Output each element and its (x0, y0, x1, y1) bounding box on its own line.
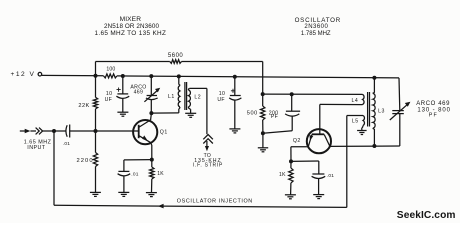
resistor 1K mixer (150, 160, 165, 193)
capacitor .01 input (54, 125, 96, 147)
svg-text:L1: L1 (168, 94, 175, 100)
wire Q1 emitter (150, 142, 151, 159)
text oscillator injection (177, 199, 253, 205)
capacitor 200PF (263, 94, 300, 133)
ground under 1K osc (285, 195, 296, 199)
svg-text:PF: PF (271, 114, 278, 120)
text mixer title (120, 16, 142, 23)
svg-text:OSCILLATOR INJECTION: OSCILLATOR INJECTION (177, 199, 253, 205)
ground under L5 (357, 131, 367, 135)
wire oscillator injection (54, 205, 347, 207)
svg-text:Q2: Q2 (293, 138, 301, 144)
svg-text:I.F. STRIP: I.F. STRIP (193, 163, 223, 169)
capacitor 10UF osc (217, 77, 241, 129)
node input junction (52, 129, 56, 133)
capacitor .01 osc (291, 161, 334, 194)
svg-text:2N518 OR 2N3600: 2N518 OR 2N3600 (104, 23, 159, 30)
ground under 10UF osc (229, 129, 240, 133)
svg-text:.01: .01 (327, 173, 334, 179)
ground under 10UF mixer (117, 112, 128, 116)
svg-text:PF: PF (429, 113, 438, 119)
node L3 bottom (372, 144, 376, 148)
svg-text:500: 500 (247, 111, 258, 117)
text oscillator title (295, 17, 341, 24)
core T1 (185, 82, 187, 110)
wire osc feed (263, 93, 363, 95)
node Q1 collector (149, 111, 153, 115)
node rail-L3 (372, 76, 376, 80)
inductor L1 (168, 76, 180, 113)
core T2 (368, 92, 370, 127)
wire L5 to injection (346, 116, 348, 208)
node Q1 base junction (94, 129, 98, 133)
svg-text:22K: 22K (78, 103, 89, 109)
ground under 500 (258, 148, 268, 152)
node feed-200PF junction (290, 92, 294, 96)
svg-text:2200: 2200 (77, 158, 94, 164)
ground under .01 osc (313, 195, 324, 199)
ground under .01 mixer (118, 192, 129, 196)
node rail-L1 (177, 74, 181, 78)
svg-text:ARCO 469: ARCO 469 (416, 101, 450, 107)
capacitor 10UF mixer (105, 76, 130, 112)
svg-text:1.785 MHZ: 1.785 MHZ (301, 31, 331, 37)
wire Q1 base (96, 130, 139, 132)
svg-text:1K: 1K (157, 171, 164, 177)
svg-text:+12 V: +12 V (11, 71, 36, 78)
resistor 100 (104, 66, 118, 78)
svg-text:L3: L3 (378, 108, 385, 114)
wire L4 bottom to Q2 base (320, 103, 363, 105)
text mixer freq (95, 30, 167, 37)
text oscillator device (304, 24, 328, 30)
wire 5600 top right (182, 61, 263, 63)
capacitor ARCO 469 osc (390, 78, 451, 120)
capacitor ARCO 469 mixer (130, 76, 160, 113)
svg-text:L2: L2 (194, 94, 201, 100)
resistor 22K (78, 76, 97, 131)
watermark SeekIC.com (397, 210, 456, 221)
wire Q2 emitter (291, 147, 308, 162)
text mixer devices (104, 23, 159, 30)
svg-text:100: 100 (106, 66, 115, 72)
svg-text:Q1: Q1 (160, 129, 168, 135)
svg-text:1.65 MHZ TO 135 KHZ: 1.65 MHZ TO 135 KHZ (95, 30, 167, 37)
capacitor .01 mixer (118, 160, 152, 193)
wire 5600 up (95, 62, 97, 76)
node 5600-osc junction (261, 92, 265, 96)
resistor 5600 (168, 53, 184, 63)
resistor 2200 (77, 131, 98, 192)
wire Q2 collector (330, 145, 400, 147)
wire Q1 collector (150, 113, 153, 120)
svg-text:.01: .01 (131, 171, 138, 177)
svg-text:UF: UF (217, 97, 225, 103)
node 500 bottom (261, 131, 265, 135)
wire L2 to IF out (190, 88, 207, 134)
node Q1 emitter (150, 158, 154, 162)
svg-text:469: 469 (134, 90, 144, 96)
node Q2 emitter (289, 159, 293, 163)
svg-text:2N3600: 2N3600 (304, 24, 328, 30)
wire Q1 collector to L1 (151, 112, 178, 114)
svg-text:SeekIC.com: SeekIC.com (397, 210, 456, 221)
wire 500 ground drop (262, 133, 264, 147)
svg-text:1K: 1K (279, 172, 286, 178)
node rail-ARCO1 (149, 74, 153, 78)
ground under 2200 (90, 192, 101, 196)
node rail-10UF (121, 74, 125, 78)
svg-text:INPUT: INPUT (27, 145, 45, 151)
svg-text:L4: L4 (352, 98, 359, 104)
svg-text:MIXER: MIXER (120, 16, 142, 23)
ground under L2 (185, 113, 196, 117)
wire 5600 down (262, 62, 264, 95)
supply +12V terminal (11, 71, 42, 78)
inductor L2 (188, 88, 201, 113)
resistor 1K osc (279, 161, 293, 194)
injection arrow (158, 204, 164, 209)
transistor Q1 (133, 120, 168, 144)
IF output symbol (193, 135, 223, 169)
inductor L5 (347, 116, 365, 131)
inductor L3 (373, 78, 385, 146)
wire tank right up (399, 114, 401, 146)
node rail-10UF2 (233, 75, 237, 79)
svg-text:L5: L5 (352, 119, 359, 125)
transistor Q2 (293, 104, 331, 153)
wire +12V rail (42, 74, 104, 76)
wire 5600 top left (96, 61, 170, 63)
text oscillator freq (301, 31, 331, 37)
wire injection left drop (53, 131, 55, 205)
node rail-22K (94, 74, 98, 78)
wire rail right part (117, 76, 399, 78)
ground under 1K mixer (146, 193, 157, 197)
svg-text:UF: UF (105, 97, 113, 103)
svg-text:.01: .01 (63, 141, 70, 147)
inductor L4 (352, 94, 365, 104)
resistor 500 (247, 94, 265, 133)
input 1.65MHZ arrow (20, 128, 54, 152)
